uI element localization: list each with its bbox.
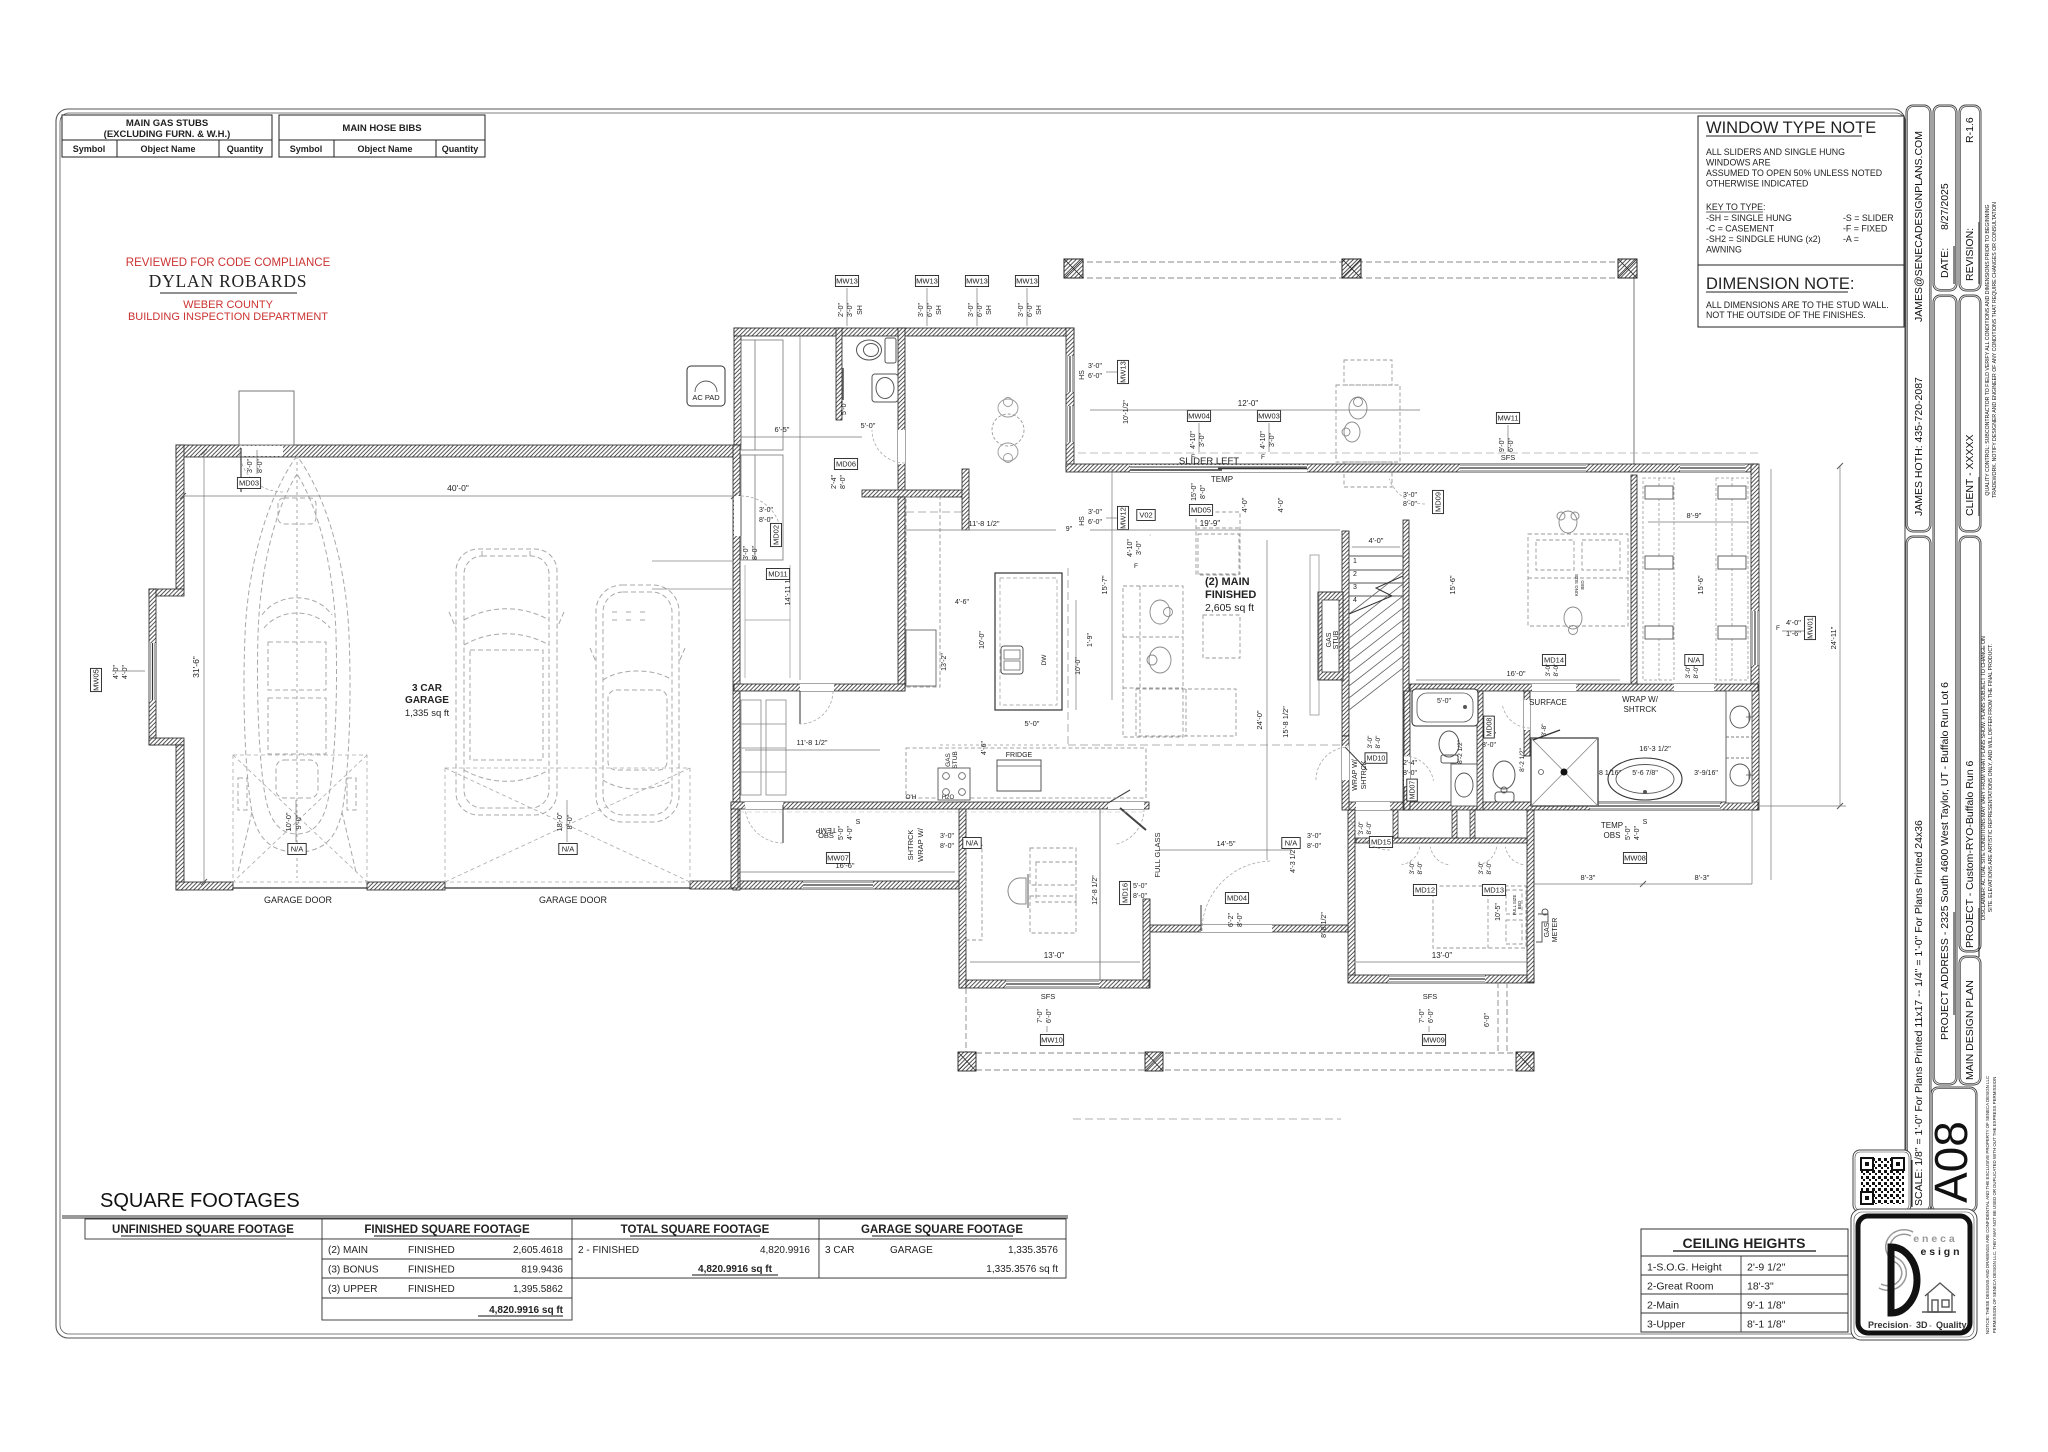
svg-text:3'-0": 3'-0" xyxy=(247,459,254,473)
svg-text:A08: A08 xyxy=(1925,1121,1977,1203)
svg-text:MW08: MW08 xyxy=(1624,854,1646,863)
svg-text:1'-9": 1'-9" xyxy=(1087,633,1094,647)
svg-text:3-Upper: 3-Upper xyxy=(1647,1319,1685,1331)
svg-text:STUB: STUB xyxy=(1333,630,1340,649)
AC PAD xyxy=(687,366,725,406)
MW11 label xyxy=(1496,413,1519,424)
svg-text:6'-0": 6'-0" xyxy=(1027,303,1034,317)
svg-text:TRADEWORK. NOTIFY DESIGNER AND: TRADEWORK. NOTIFY DESIGNER AND ENGINEER … xyxy=(1992,202,1998,498)
fireplace xyxy=(1318,592,1343,680)
svg-text:3'-0": 3'-0" xyxy=(1269,433,1276,447)
svg-text:MW13: MW13 xyxy=(966,277,988,286)
svg-text:Quality: Quality xyxy=(1936,1320,1967,1330)
svg-text:4'-0": 4'-0" xyxy=(113,665,120,679)
stairs xyxy=(1403,520,1409,710)
dim 31-6 garage xyxy=(203,452,205,882)
svg-text:N/A: N/A xyxy=(562,845,575,854)
svg-text:GAS: GAS xyxy=(1326,632,1333,647)
svg-text:8'-1 1/8": 8'-1 1/8" xyxy=(1747,1319,1786,1331)
svg-text:2,605.4618: 2,605.4618 xyxy=(513,1245,563,1256)
titleblock client box xyxy=(1959,295,1981,532)
titleblock revision box xyxy=(1959,105,1981,291)
svg-text:OBS: OBS xyxy=(818,831,834,840)
svg-text:-S = SLIDER: -S = SLIDER xyxy=(1843,213,1894,223)
svg-text:3'-0": 3'-0" xyxy=(1478,861,1485,875)
wall garage bump left xyxy=(149,589,156,745)
label MW05 xyxy=(91,668,102,691)
svg-text:Quantity: Quantity xyxy=(442,144,479,154)
svg-text:FULL GLASS: FULL GLASS xyxy=(1153,832,1162,877)
svg-text:8'-8 1/2": 8'-8 1/2" xyxy=(1321,912,1328,938)
svg-text:WEBER COUNTY: WEBER COUNTY xyxy=(183,299,274,311)
svg-text:4,820.9916 sq ft: 4,820.9916 sq ft xyxy=(489,1305,564,1316)
svg-text:1,335 sq ft: 1,335 sq ft xyxy=(405,708,450,719)
svg-text:4,820.9916: 4,820.9916 xyxy=(760,1245,810,1256)
svg-text:SLIDER LEFT: SLIDER LEFT xyxy=(1179,456,1239,467)
bedroom2 labels xyxy=(1413,885,1436,896)
corner glass door office xyxy=(1120,808,1146,830)
titleblock project name box xyxy=(1959,536,1981,952)
svg-text:8'-0": 8'-0" xyxy=(1482,742,1496,749)
svg-text:MD08: MD08 xyxy=(1487,718,1494,737)
door MD02 opening garage-mudroom xyxy=(734,496,741,536)
titleblock scale box xyxy=(1906,536,1931,1212)
svg-text:MD10: MD10 xyxy=(1367,756,1386,763)
svg-text:8'-2 1/2": 8'-2 1/2" xyxy=(1519,747,1526,771)
svg-text:MD07: MD07 xyxy=(1410,781,1417,800)
wall hall west lower xyxy=(1342,736,1349,810)
wall garage east xyxy=(733,445,740,890)
svg-text:REVIEWED FOR CODE COMPLIANCE: REVIEWED FOR CODE COMPLIANCE xyxy=(126,257,331,269)
svg-text:NOTICE: THESE DESIGNS AND DRAW: NOTICE: THESE DESIGNS AND DRAWINGS ARE C… xyxy=(1985,1076,1990,1334)
wall mudroom west xyxy=(734,328,741,445)
svg-text:4'-0": 4'-0" xyxy=(1786,618,1801,627)
svg-text:DATE:: DATE: xyxy=(1939,248,1951,278)
svg-text:CLIENT - XXXXX: CLIENT - XXXXX xyxy=(1964,435,1976,517)
svg-text:AWNING: AWNING xyxy=(1706,245,1742,255)
svg-text:2 - FINISHED: 2 - FINISHED xyxy=(578,1245,639,1256)
porch column 2 xyxy=(1145,1052,1163,1071)
svg-text:15'-0": 15'-0" xyxy=(1191,483,1198,501)
svg-text:MW13: MW13 xyxy=(916,277,938,286)
svg-text:MD06: MD06 xyxy=(836,460,856,469)
svg-text:1,395.5862: 1,395.5862 xyxy=(513,1284,563,1295)
wall great room top xyxy=(1066,464,1758,472)
svg-text:8'-0": 8'-0" xyxy=(1486,861,1493,875)
svg-text:-A =: -A = xyxy=(1843,234,1859,244)
svg-text:MAIN GAS STUBS: MAIN GAS STUBS xyxy=(126,118,208,129)
svg-text:1,335.3576 sq ft: 1,335.3576 sq ft xyxy=(986,1264,1058,1275)
svg-text:9": 9" xyxy=(1066,526,1073,533)
svg-text:3'-0": 3'-0" xyxy=(1685,665,1692,679)
slider opening xyxy=(1130,465,1307,472)
covered patio dashed outline xyxy=(1078,261,1626,263)
svg-text:24'-11": 24'-11" xyxy=(1829,626,1838,649)
svg-text:N/A: N/A xyxy=(1688,656,1701,665)
svg-text:5'-0": 5'-0" xyxy=(1025,719,1040,728)
svg-text:10'-0": 10'-0" xyxy=(979,631,986,649)
dim 15-7 xyxy=(1111,469,1113,700)
svg-text:WRAP W/: WRAP W/ xyxy=(1622,695,1659,704)
square footage table xyxy=(62,1216,1068,1320)
window MW11 xyxy=(1460,464,1586,472)
fridge xyxy=(997,760,1041,791)
wall garage bottom seg1 xyxy=(176,882,233,890)
svg-text:1-S.O.G. Height: 1-S.O.G. Height xyxy=(1647,1262,1722,1274)
label MD03 xyxy=(237,478,260,489)
patio column 2 xyxy=(1342,259,1361,278)
svg-text:2'-4": 2'-4" xyxy=(831,475,838,489)
svg-text:8'-0": 8'-0" xyxy=(1200,485,1207,499)
svg-text:3'-0": 3'-0" xyxy=(1307,833,1321,840)
svg-text:3D: 3D xyxy=(1916,1320,1928,1330)
gas meter xyxy=(1536,909,1548,942)
svg-text:MD16: MD16 xyxy=(1121,883,1130,903)
wall south master-bath band xyxy=(1348,802,1758,810)
wall bedroom2 west xyxy=(1348,810,1355,982)
titleblock sheet title box xyxy=(1959,956,1981,1085)
svg-text:(3) BONUS: (3) BONUS xyxy=(328,1265,379,1276)
mudroom cabinet lines xyxy=(745,565,790,678)
office desk and chair xyxy=(966,845,1076,940)
patio figures at table xyxy=(1342,397,1367,442)
wall mudroom top xyxy=(734,328,1074,336)
garage keypads xyxy=(288,844,306,855)
svg-text:DYLAN ROBARDS: DYLAN ROBARDS xyxy=(149,271,308,291)
recess labels MD04 xyxy=(1225,893,1248,904)
svg-text:8'-2 1/2": 8'-2 1/2" xyxy=(1457,739,1464,763)
bath tub 1 xyxy=(1412,689,1478,726)
svg-text:7'-0": 7'-0" xyxy=(1419,1009,1426,1023)
svg-text:3: 3 xyxy=(1353,584,1357,591)
svg-text:31'-6": 31'-6" xyxy=(191,656,201,678)
svg-text:SFS: SFS xyxy=(1501,453,1516,462)
pantry shelves xyxy=(741,700,786,795)
dim 24-11 xyxy=(1839,466,1841,806)
dim 4-0 stair width xyxy=(1352,546,1400,548)
svg-text:Symbol: Symbol xyxy=(290,144,323,154)
wall office west xyxy=(959,802,966,988)
indoor dining table xyxy=(1149,534,1151,536)
kitchen range xyxy=(938,768,970,800)
svg-text:4: 4 xyxy=(1353,597,1357,604)
wall east exterior xyxy=(1751,464,1759,810)
svg-text:HS: HS xyxy=(1079,516,1086,526)
svg-text:FINISHED: FINISHED xyxy=(408,1284,455,1295)
svg-text:V02: V02 xyxy=(1139,511,1152,520)
svg-text:SH: SH xyxy=(857,305,864,315)
svg-text:GAS: GAS xyxy=(1544,922,1551,937)
svg-text:WRAP W/: WRAP W/ xyxy=(916,827,925,862)
window MW10 xyxy=(1006,980,1099,988)
svg-text:BED: BED xyxy=(1580,580,1585,590)
wall rear entry recess xyxy=(1149,925,1348,932)
NA label master closet xyxy=(1685,655,1703,666)
svg-text:1,335.3576: 1,335.3576 xyxy=(1008,1245,1058,1256)
porch column 3 xyxy=(1516,1052,1534,1071)
svg-text:MW03: MW03 xyxy=(1258,412,1280,421)
svg-text:8'-0": 8'-0" xyxy=(1553,663,1560,677)
wall side entry west xyxy=(731,802,738,888)
svg-text:4'-0": 4'-0" xyxy=(847,826,854,840)
svg-text:GARAGE SQUARE FOOTAGE: GARAGE SQUARE FOOTAGE xyxy=(861,1224,1023,1236)
upper floor dashed line xyxy=(1067,568,1069,745)
window MW07 xyxy=(803,881,873,889)
svg-text:4'-10": 4'-10" xyxy=(1127,539,1134,557)
wall powder south xyxy=(862,490,965,497)
svg-text:5'-0": 5'-0" xyxy=(1625,826,1632,840)
dim 13-0 office xyxy=(970,961,1140,963)
svg-text:WINDOWS ARE: WINDOWS ARE xyxy=(1706,158,1771,168)
svg-text:TEMP: TEMP xyxy=(1211,475,1233,484)
svg-text:UNFINISHED SQUARE FOOTAGE: UNFINISHED SQUARE FOOTAGE xyxy=(112,1224,294,1236)
svg-text:2'-0": 2'-0" xyxy=(838,303,845,317)
svg-text:5'-6 7/8": 5'-6 7/8" xyxy=(1632,770,1658,777)
svg-text:JAMES@SENECADESIGNPLANS.COM: JAMES@SENECADESIGNPLANS.COM xyxy=(1913,131,1925,322)
svg-text:MW10: MW10 xyxy=(1041,1036,1063,1045)
svg-text:CEILING HEIGHTS: CEILING HEIGHTS xyxy=(1683,1235,1806,1251)
svg-text:3'-0": 3'-0" xyxy=(1403,492,1417,499)
svg-text:13'-0": 13'-0" xyxy=(1432,951,1453,960)
svg-text:FINISHED: FINISHED xyxy=(408,1265,455,1276)
svg-text:6'-0": 6'-0" xyxy=(1088,373,1102,380)
svg-text:MAIN DESIGN PLAN: MAIN DESIGN PLAN xyxy=(1964,980,1976,1080)
svg-text:SFS: SFS xyxy=(1041,992,1056,1001)
master figures xyxy=(1557,511,1582,635)
svg-text:SURFACE: SURFACE xyxy=(1529,698,1567,707)
svg-text:12'-8 1/2": 12'-8 1/2" xyxy=(1092,875,1099,905)
garage door clearance X 1 xyxy=(233,755,367,882)
patio column 1 xyxy=(1064,259,1083,278)
WINDOW TYPE NOTE box xyxy=(1698,116,1904,265)
wall garage top xyxy=(176,445,740,457)
svg-text:9'-1 1/8": 9'-1 1/8" xyxy=(1747,1300,1786,1312)
dim 40-0 garage xyxy=(183,495,734,497)
shower xyxy=(1531,738,1598,806)
svg-text:HS: HS xyxy=(1079,370,1086,380)
svg-text:6'-0": 6'-0" xyxy=(927,303,934,317)
svg-text:11'-8 1/2": 11'-8 1/2" xyxy=(796,738,827,747)
svg-text:8'-3": 8'-3" xyxy=(1581,873,1596,882)
svg-text:2-Main: 2-Main xyxy=(1647,1300,1679,1312)
QR code box xyxy=(1853,1150,1911,1212)
svg-text:8/27/2025: 8/27/2025 xyxy=(1939,183,1951,230)
svg-text:STUB: STUB xyxy=(952,751,959,768)
kitchen ceiling dashed band xyxy=(731,811,1143,813)
wall garage bump bottom xyxy=(149,738,184,745)
media wall niche xyxy=(1310,555,1319,715)
wall garage bump top xyxy=(149,589,184,596)
kitchen wall oven xyxy=(906,630,936,686)
svg-text:(2) MAIN: (2) MAIN xyxy=(1205,576,1250,588)
svg-text:DW: DW xyxy=(1041,654,1048,666)
titleblock date box xyxy=(1933,105,1957,291)
titleblock project address box xyxy=(1933,295,1957,1085)
svg-text:6'-0": 6'-0" xyxy=(1428,1009,1435,1023)
svg-text:-C = CASEMENT: -C = CASEMENT xyxy=(1706,224,1775,234)
svg-text:8'-0": 8'-0" xyxy=(940,843,954,850)
svg-text:MD15: MD15 xyxy=(1371,838,1391,847)
window MW05 xyxy=(149,643,156,700)
svg-text:(3) UPPER: (3) UPPER xyxy=(328,1284,377,1295)
svg-text:MW09: MW09 xyxy=(1423,1036,1445,1045)
svg-text:SFS: SFS xyxy=(1423,992,1438,1001)
wall office bottom xyxy=(959,980,1149,988)
CEILING HEIGHTS table xyxy=(1641,1229,1848,1332)
dim 16-6 xyxy=(738,871,955,873)
svg-text:F: F xyxy=(1776,625,1780,632)
svg-text:GAS: GAS xyxy=(945,752,952,766)
svg-text:6'-5": 6'-5" xyxy=(775,425,790,434)
svg-text:3'-0": 3'-0" xyxy=(1018,303,1025,317)
QR code xyxy=(1861,1158,1904,1204)
wall hall east lower xyxy=(1403,710,1409,810)
svg-text:(EXCLUDING FURN. & W.H.): (EXCLUDING FURN. & W.H.) xyxy=(104,129,231,140)
window MW08 temp-obs xyxy=(1590,802,1720,810)
sheet border frame xyxy=(56,109,1905,1338)
door opening MD15 hall xyxy=(1356,802,1390,810)
window MW13 master xyxy=(1680,464,1745,472)
svg-text:KEY TO TYPE:: KEY TO TYPE: xyxy=(1706,202,1766,212)
dim 19-9 xyxy=(1090,529,1340,531)
svg-text:e s i g n: e s i g n xyxy=(1920,1246,1959,1258)
svg-text:-F = FIXED: -F = FIXED xyxy=(1843,224,1887,234)
svg-text:8'-0": 8'-0" xyxy=(1693,665,1700,679)
dim 11-8 xyxy=(906,529,1056,531)
svg-text:SH: SH xyxy=(936,305,943,315)
svg-text:8'-0": 8'-0" xyxy=(840,475,847,489)
svg-text:Object Name: Object Name xyxy=(140,144,195,154)
svg-text:2,605 sq ft: 2,605 sq ft xyxy=(1205,602,1254,614)
wall garage left lower xyxy=(176,745,184,890)
wall side entry bottom xyxy=(690,881,959,889)
wall master bath north xyxy=(1410,684,1758,691)
svg-text:SQUARE FOOTAGES: SQUARE FOOTAGES xyxy=(100,1190,300,1212)
svg-text:6'-0": 6'-0" xyxy=(977,303,984,317)
powder toilet xyxy=(857,338,897,363)
svg-text:KING SIZE: KING SIZE xyxy=(1574,574,1579,596)
powder mirror xyxy=(842,368,844,400)
svg-text:16'-3 1/2": 16'-3 1/2" xyxy=(1639,744,1671,753)
bedroom2 closet walls xyxy=(1356,838,1527,843)
svg-text:R-1.6: R-1.6 xyxy=(1964,117,1976,143)
dim 8-9 xyxy=(1648,521,1748,523)
door MD03 opening xyxy=(241,446,283,456)
svg-text:◦: ◦ xyxy=(1909,1323,1911,1330)
svg-text:N/A: N/A xyxy=(1285,839,1298,848)
svg-text:15'-6": 15'-6" xyxy=(1448,575,1457,594)
svg-text:MD02: MD02 xyxy=(772,525,781,545)
window MW01 xyxy=(1751,611,1759,665)
table MAIN GAS STUBS xyxy=(62,115,272,157)
garage door 2 opening xyxy=(445,887,690,889)
svg-text:15'-8 1/2": 15'-8 1/2" xyxy=(1281,706,1290,738)
svg-text:5'-0": 5'-0" xyxy=(861,421,876,430)
svg-text:16'-0": 16'-0" xyxy=(1506,669,1525,678)
logo house icon xyxy=(1922,1283,1956,1312)
wall powder west xyxy=(836,328,842,420)
wall bath1 east xyxy=(1477,691,1483,810)
powder sink xyxy=(872,374,898,402)
door MD16 opening full glass xyxy=(1108,802,1144,809)
window HS MW13 nook xyxy=(1066,356,1074,392)
svg-text:NOT THE OUTSIDE OF THE FINISHE: NOT THE OUTSIDE OF THE FINISHES. xyxy=(1706,310,1866,320)
svg-text:3'-0": 3'-0" xyxy=(1088,363,1102,370)
svg-text:FINISHED: FINISHED xyxy=(408,1245,455,1256)
svg-text:SHTRCK: SHTRCK xyxy=(1624,705,1658,714)
svg-text:3'-0": 3'-0" xyxy=(847,303,854,317)
svg-text:DIMENSION NOTE:: DIMENSION NOTE: xyxy=(1706,275,1855,293)
wall bath west xyxy=(1404,691,1410,810)
opening N/A closet xyxy=(1674,684,1714,691)
door MD08 opening xyxy=(1524,700,1530,730)
svg-text:6'-0": 6'-0" xyxy=(1484,1013,1491,1027)
svg-text:8'-9": 8'-9" xyxy=(1687,511,1702,520)
SUV xyxy=(449,549,564,815)
bath toilet 1 xyxy=(1439,731,1459,763)
svg-text:4'-6": 4'-6" xyxy=(981,741,988,755)
svg-text:Quantity: Quantity xyxy=(227,144,264,154)
svg-text:3 CAR: 3 CAR xyxy=(825,1245,854,1256)
titleblock A08 box xyxy=(1931,1087,1977,1212)
svg-text:e n e c a: e n e c a xyxy=(1913,1233,1955,1245)
svg-text:ASSUMED TO OPEN 50% UNLESS NOT: ASSUMED TO OPEN 50% UNLESS NOTED xyxy=(1706,168,1882,178)
MW13 labels row xyxy=(835,276,858,287)
great room figures xyxy=(1147,600,1173,673)
svg-text:MW11: MW11 xyxy=(1497,414,1518,423)
svg-text:11'-8 1/2": 11'-8 1/2" xyxy=(968,519,999,528)
svg-text:QUALITY CONTROL: SUBCONTRACTOR: QUALITY CONTROL: SUBCONTRACTOR TO FIELD … xyxy=(1985,204,1991,495)
svg-text:AC PAD: AC PAD xyxy=(692,393,720,402)
door MD10 opening xyxy=(1342,746,1349,780)
wall kitchen south xyxy=(731,802,1149,809)
garage man-door stoop xyxy=(239,391,294,445)
bedroom2 bed xyxy=(1433,886,1526,948)
svg-text:8'-0": 8'-0" xyxy=(1417,861,1424,875)
door MD14 opening xyxy=(1532,684,1576,691)
DIMENSION NOTE box xyxy=(1698,265,1904,327)
window MW09 xyxy=(1389,975,1485,983)
svg-text:GARAGE DOOR: GARAGE DOOR xyxy=(264,895,333,905)
dim 16-0 md14 xyxy=(1416,679,1620,681)
svg-text:4'-0": 4'-0" xyxy=(122,665,129,679)
svg-text:3'-0": 3'-0" xyxy=(743,546,750,560)
svg-text:4'-10": 4'-10" xyxy=(1260,431,1267,449)
svg-text:3'-0": 3'-0" xyxy=(918,303,925,317)
svg-text:SITE. ELEVATIONS ARE ARTISTIC: SITE. ELEVATIONS ARE ARTISTIC REPRESENTA… xyxy=(1988,644,1994,912)
svg-text:13'-0": 13'-0" xyxy=(1044,951,1065,960)
svg-text:MD13: MD13 xyxy=(1484,886,1504,895)
svg-text:18'-3": 18'-3" xyxy=(1747,1281,1774,1293)
svg-text:TEMP: TEMP xyxy=(1601,821,1623,830)
svg-text:N/A: N/A xyxy=(966,839,979,848)
logo S-D mark xyxy=(1880,1232,1912,1288)
svg-text:4'-0": 4'-0" xyxy=(1634,826,1641,840)
svg-text:OTHERWISE INDICATED: OTHERWISE INDICATED xyxy=(1706,179,1808,189)
svg-text:MW01: MW01 xyxy=(1806,617,1815,639)
door MD11 opening xyxy=(800,684,834,691)
svg-text:MD12: MD12 xyxy=(1415,886,1435,895)
wall pantry top xyxy=(734,684,905,691)
svg-text:8'-0": 8'-0" xyxy=(1375,735,1382,749)
door MD07 opening xyxy=(1404,756,1410,786)
svg-text:15'-7": 15'-7" xyxy=(1100,575,1109,594)
svg-text:SH: SH xyxy=(986,305,993,315)
sports car xyxy=(590,585,685,822)
svg-text:4'-10": 4'-10" xyxy=(1190,431,1197,449)
island sink xyxy=(1001,646,1023,674)
wall garage left upper xyxy=(176,445,184,589)
